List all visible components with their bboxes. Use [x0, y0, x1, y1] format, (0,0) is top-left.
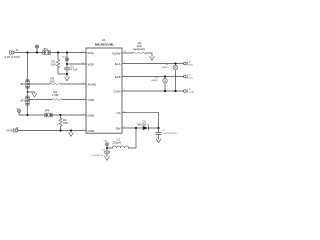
resistor R4: [59, 115, 62, 131]
capacitor C2: [156, 128, 162, 139]
ground GND line: [69, 131, 74, 137]
svg-text:10K: 10K: [63, 121, 68, 125]
capacitor C1: [64, 64, 70, 74]
svg-text:JP3: JP3: [20, 99, 25, 103]
node dot C1 bottom: [66, 73, 68, 75]
node dot D1/C2/CS: [157, 127, 159, 129]
ground C1: [65, 74, 70, 81]
wire AGND line to IC: [60, 83, 86, 85]
resistor R5: [52, 99, 62, 101]
ground R2: [150, 57, 155, 61]
wire VIN rail segment 2: [51, 52, 87, 54]
svg-text:(optional): (optional): [133, 47, 145, 51]
wire R2 to ground: [146, 53, 152, 57]
capacitor C3: [104, 148, 110, 157]
svg-text:GND: GND: [7, 129, 13, 133]
jumper JP2 (3-pin header): [26, 79, 30, 88]
resistor R1: [56, 53, 59, 75]
svg-text:LAMP2: LAMP2: [151, 79, 159, 82]
svg-text:SW: SW: [116, 126, 121, 130]
wire VDD feed vertical: [66, 53, 68, 65]
svg-text:0.0022µF/250V: 0.0022µF/250V: [162, 133, 178, 135]
svg-text:COM: COM: [114, 89, 122, 93]
resistor R2: [133, 52, 146, 54]
svg-text:SLEW: SLEW: [112, 51, 121, 55]
resistor R3: [50, 83, 60, 85]
wire CS line: [122, 113, 159, 128]
svg-text:JP1: JP1: [43, 47, 48, 51]
node dot TP1: [36, 51, 38, 53]
wire COM line: [122, 90, 183, 92]
node dot COM/LAMP1: [174, 90, 176, 92]
svg-text:220µH: 220µH: [113, 141, 121, 145]
svg-text:1.5M: 1.5M: [52, 93, 59, 97]
svg-text:VDD: VDD: [88, 62, 95, 66]
connector J1: [9, 50, 17, 55]
svg-text:JP2: JP2: [20, 82, 25, 86]
node dot VDD: [66, 63, 68, 65]
node dot COM/LAMP2: [164, 90, 166, 92]
svg-text:ELB: ELB: [189, 78, 194, 80]
svg-text:10K: 10K: [51, 62, 56, 66]
wire JP3 middle to R5: [29, 99, 52, 101]
svg-text:VIN: VIN: [16, 109, 20, 111]
node dot rail/JP2 column: [26, 51, 28, 53]
wire R5 to IC GND pin: [62, 99, 86, 101]
wire SW line: [122, 127, 143, 129]
test point TP2: [65, 58, 68, 61]
lamp EL LAMP1: [173, 64, 178, 92]
node dot GND line/ground: [70, 129, 72, 131]
wire left column from rail: [27, 53, 29, 80]
svg-text:JP4: JP4: [45, 109, 50, 113]
node dot ELA/LAMP1: [174, 62, 176, 64]
wire ELB line: [122, 76, 183, 78]
node dot rail/R1: [57, 51, 59, 53]
svg-text:BAS86-V: BAS86-V: [138, 123, 150, 127]
node dot ELB/LAMP2: [164, 75, 166, 77]
wire SLEW to R2: [122, 52, 133, 54]
jumper JP4: [44, 113, 52, 117]
connector J2: [13, 128, 21, 133]
svg-text:LAMP1: LAMP1: [162, 66, 170, 69]
svg-text:VIN: VIN: [104, 141, 108, 143]
wire VIN rail: [17, 52, 43, 54]
wire JP2 middle to AGND line: [29, 83, 50, 85]
wire GND rail segment 2: [53, 114, 86, 116]
connector J5: [184, 89, 188, 93]
wire JP3 bottom to GND rail: [27, 105, 29, 115]
op-amp U1 IC box: [86, 48, 122, 133]
svg-text:2.3V to 5.5V: 2.3V to 5.5V: [5, 55, 21, 59]
node dot GND rail/R4: [59, 114, 61, 116]
inductor L1: [107, 146, 136, 148]
node dot GND rail/column: [26, 114, 28, 116]
svg-text:COM: COM: [189, 92, 194, 94]
test point TP1: [35, 45, 39, 52]
svg-text:AGND: AGND: [88, 82, 98, 86]
svg-text:51K: 51K: [50, 80, 55, 84]
svg-text:GND: GND: [88, 129, 96, 133]
test point TP3 VIN: [17, 110, 20, 115]
wire R1 bottom to C1 ground node: [58, 73, 67, 75]
svg-text:J1: J1: [16, 48, 19, 52]
test point TP4 VIN: [105, 143, 108, 148]
wire VDD to IC: [67, 63, 86, 65]
svg-text:GND: GND: [88, 98, 96, 102]
svg-text:J2: J2: [16, 126, 19, 130]
wire GND rail: [19, 114, 44, 116]
jumper JP3 (3-pin header): [26, 96, 30, 105]
connector J4: [184, 75, 188, 79]
ground C3: [105, 157, 110, 161]
node dot ground tap: [27, 91, 29, 93]
svg-text:4.7µF: 4.7µF: [70, 67, 77, 71]
wire SW to L1 vertical: [135, 128, 137, 148]
svg-text:ELB: ELB: [115, 75, 121, 79]
wire ELA line: [122, 63, 183, 65]
svg-text:CS: CS: [116, 111, 120, 115]
ground JP2 tap: [32, 92, 37, 97]
wire JP2 bottom to ground tap: [27, 89, 29, 96]
wire GND line to IC: [21, 130, 86, 132]
ground C2: [156, 139, 161, 143]
connector J3: [184, 62, 188, 66]
svg-text:ELA: ELA: [189, 64, 194, 67]
node dot rail/VDD: [66, 51, 68, 53]
jumper JP1: [42, 51, 50, 55]
node dot VIN/L1: [106, 147, 108, 149]
node dot SW/L1: [135, 127, 137, 129]
svg-text:GND: GND: [88, 113, 96, 117]
svg-text:4.7µF/6.3V: 4.7µF/6.3V: [92, 155, 103, 157]
svg-text:VDD: VDD: [62, 57, 67, 59]
svg-text:ENA: ENA: [88, 51, 94, 55]
lamp EL LAMP2: [163, 77, 168, 92]
wire ground tap horizontal: [28, 91, 35, 93]
diode D1: [143, 126, 159, 130]
svg-text:ELA: ELA: [115, 62, 121, 66]
svg-text:MIC4832YML: MIC4832YML: [95, 42, 114, 46]
node dot GND line/R4: [59, 129, 61, 131]
